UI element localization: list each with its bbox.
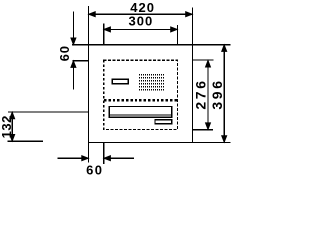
svg-text:132: 132 [0, 115, 14, 138]
speaker grille [139, 74, 164, 90]
window rectangle [112, 79, 128, 83]
dimension line 396 [223, 45, 225, 142]
svg-text:276: 276 [193, 78, 209, 109]
plate rectangle [155, 120, 172, 124]
enclosure right edge (extended as extension line for dim 420) [191, 8, 193, 143]
dimension line 60 bottom right segment [104, 157, 134, 159]
svg-text:60: 60 [57, 45, 72, 61]
extension line for dim 132 (slot level) [8, 111, 88, 113]
svg-text:300: 300 [129, 14, 154, 29]
arrowhead 420 right [186, 12, 193, 17]
arrowhead 396 up [222, 45, 227, 52]
reference line for dim 132 lower end [8, 140, 44, 142]
extension line for dim 60 top-left (recess top level) [72, 60, 88, 62]
extension line top for dim 276 [192, 59, 213, 61]
svg-text:60: 60 [86, 163, 103, 176]
arrowhead 132 up [10, 112, 15, 119]
arrowhead 132 down [10, 134, 15, 141]
extension line left for dim 300 [103, 24, 105, 45]
dimension line 60 top-left lower segment [72, 61, 74, 89]
enclosure bottom edge (extended as extension line for dim 396) [89, 141, 231, 143]
slot rectangle [109, 107, 171, 118]
enclosure left edge (extended as extension line for dims 420/60) [88, 6, 90, 163]
extension line right for dim 300 [176, 25, 178, 45]
arrowhead 396 down [222, 136, 227, 143]
arrowhead 60 top-left down [71, 38, 76, 45]
arrowhead 276 up [205, 60, 210, 67]
extension line for dim 60 bottom (recess left edge) [103, 142, 105, 163]
arrowhead 300 left [104, 27, 111, 32]
dimension line 420 [89, 13, 192, 15]
arrowhead 276 down [205, 123, 210, 130]
heavy dotted opening line [104, 99, 177, 101]
arrowhead 60 bottom right-pointing [82, 156, 89, 161]
arrowhead 420 left [89, 12, 96, 17]
dimension line 132 [11, 113, 13, 141]
dimension line 60 bottom left segment [58, 157, 88, 159]
dimension line 60 top-left upper segment [72, 12, 74, 45]
extension line bottom for dim 276 [192, 129, 213, 131]
arrowhead 60 bottom left-pointing [104, 156, 111, 161]
enclosure top edge (extended as extension line for dims 60/396) [72, 44, 231, 46]
arrowhead 60 top-left up [71, 61, 76, 68]
dimension line 300 [104, 28, 177, 30]
dashed mounting box [104, 60, 178, 129]
svg-text:396: 396 [209, 78, 225, 109]
arrowhead 300 right [171, 27, 178, 32]
slot inner line [110, 114, 171, 116]
dimension line 276 [207, 61, 209, 129]
